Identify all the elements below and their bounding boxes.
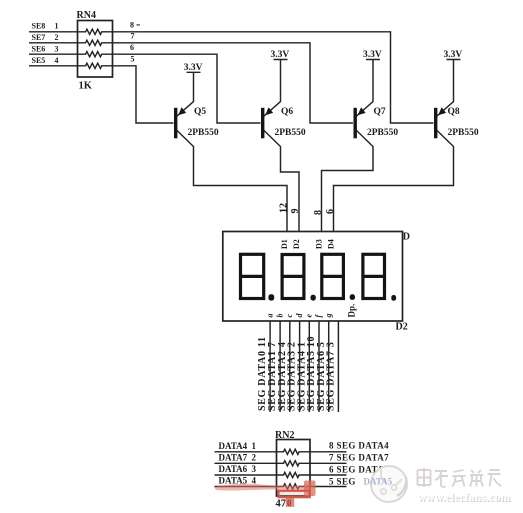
svg-text:f: f	[314, 314, 323, 318]
svg-text:SE7: SE7	[32, 33, 46, 42]
svg-text:DATA5: DATA5	[364, 476, 393, 486]
svg-text:3: 3	[252, 464, 257, 474]
svg-text:0: 0	[287, 498, 292, 508]
svg-text:Q7: Q7	[374, 107, 386, 117]
svg-text:3: 3	[55, 44, 59, 53]
svg-text:D4: D4	[327, 239, 336, 249]
svg-text:DATA7: DATA7	[219, 453, 248, 463]
svg-text:6: 6	[325, 209, 336, 214]
svg-text:DATA4: DATA4	[219, 441, 248, 451]
svg-text:1K: 1K	[79, 81, 93, 92]
svg-text:8: 8	[130, 21, 134, 30]
svg-text:3.3V: 3.3V	[271, 50, 290, 60]
svg-text:1: 1	[252, 441, 257, 451]
svg-text:Dp.: Dp.	[347, 304, 357, 318]
svg-text:2PB550: 2PB550	[448, 128, 479, 138]
svg-text:a: a	[265, 314, 274, 318]
svg-text:8: 8	[313, 210, 324, 215]
svg-text:6: 6	[130, 43, 134, 52]
svg-text:1: 1	[55, 22, 59, 31]
svg-text:Q8: Q8	[448, 107, 460, 117]
svg-text:7: 7	[131, 32, 135, 41]
svg-text:www.elecfans.com: www.elecfans.com	[418, 492, 511, 504]
svg-text:SE8: SE8	[32, 22, 46, 31]
svg-text:Q6: Q6	[281, 107, 293, 117]
svg-text:5: 5	[131, 55, 135, 64]
svg-text:2PB550: 2PB550	[275, 128, 306, 138]
svg-text:RN2: RN2	[275, 430, 294, 441]
svg-text:D: D	[403, 232, 410, 243]
svg-text:g: g	[324, 314, 333, 319]
svg-text:3.3V: 3.3V	[363, 50, 382, 60]
svg-text:e: e	[305, 314, 314, 318]
svg-text:2PB550: 2PB550	[188, 128, 219, 138]
svg-text:b: b	[275, 314, 284, 318]
svg-text:2PB550: 2PB550	[367, 128, 398, 138]
svg-text:Q5: Q5	[194, 107, 206, 117]
svg-text:SEG DATA7 3: SEG DATA7 3	[326, 341, 337, 411]
svg-text:7 SEG DATA7: 7 SEG DATA7	[329, 452, 389, 462]
svg-text:D1: D1	[280, 239, 289, 249]
svg-text:8 SEG DATA4: 8 SEG DATA4	[329, 441, 389, 451]
svg-text:D2: D2	[396, 322, 408, 333]
svg-text:2: 2	[55, 33, 59, 42]
svg-text:3.3V: 3.3V	[444, 50, 463, 60]
svg-text:4: 4	[55, 56, 59, 65]
svg-text:RN4: RN4	[77, 10, 96, 21]
svg-text:47: 47	[276, 499, 287, 510]
svg-text:D3: D3	[315, 239, 324, 249]
svg-text:9: 9	[290, 209, 301, 214]
svg-text:12: 12	[279, 203, 290, 213]
svg-text:D2: D2	[292, 239, 301, 249]
svg-text:2: 2	[252, 453, 257, 463]
svg-text:DATA6: DATA6	[219, 464, 248, 474]
svg-text:3.3V: 3.3V	[184, 63, 203, 73]
svg-text:c: c	[285, 314, 294, 318]
svg-text:SE5: SE5	[32, 56, 46, 65]
svg-text:5 SEG: 5 SEG	[329, 476, 356, 486]
svg-text:d: d	[295, 313, 304, 318]
svg-text:SE6: SE6	[32, 44, 46, 53]
